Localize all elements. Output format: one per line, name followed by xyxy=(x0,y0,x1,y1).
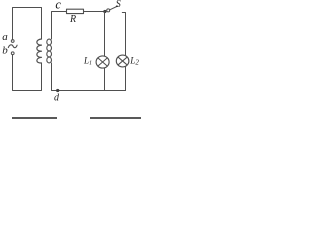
wire primary loop bottom xyxy=(13,55,42,91)
svg-text:R: R xyxy=(69,14,76,25)
switch S pivot xyxy=(107,9,110,12)
primary coil (transformer left winding) xyxy=(37,39,42,63)
wire bottom secondary xyxy=(52,63,126,91)
node d xyxy=(56,89,59,92)
svg-text:c: c xyxy=(55,0,61,12)
terminal a xyxy=(11,40,14,43)
secondary coil (transformer right winding) xyxy=(47,39,52,63)
wire resistor to junction xyxy=(84,11,105,13)
svg-text:b: b xyxy=(2,44,8,56)
wire switch stub to L2 branch xyxy=(122,13,125,56)
wire primary loop top xyxy=(13,8,42,41)
node junction at L1 branch xyxy=(103,10,106,13)
underline left segment xyxy=(12,117,57,119)
underline right segment xyxy=(90,117,141,119)
wire below lamp L1 xyxy=(104,68,106,91)
AC source symbol ~ xyxy=(8,45,17,48)
lamp L2 xyxy=(116,55,129,67)
terminal b xyxy=(11,52,14,55)
svg-text:d: d xyxy=(54,93,60,104)
svg-text:a: a xyxy=(2,31,8,43)
svg-text:L1: L1 xyxy=(83,56,92,67)
wire L1 branch down xyxy=(104,12,106,57)
lamp L1 xyxy=(96,56,109,68)
svg-text:L2: L2 xyxy=(129,56,139,67)
svg-text:S: S xyxy=(116,0,121,10)
switch S blade xyxy=(110,6,118,10)
wire secondary up to node c xyxy=(52,12,67,40)
wire below lamp L2 xyxy=(125,67,127,91)
resistor R xyxy=(67,9,84,13)
